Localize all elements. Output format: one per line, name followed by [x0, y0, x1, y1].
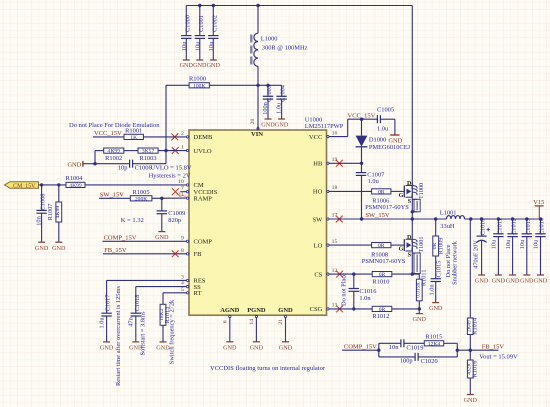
resistor R1016 432R: [464, 350, 479, 404]
svg-text:VCC_15V: VCC_15V: [94, 130, 122, 137]
capacitor C1008 10n: [35, 185, 49, 252]
capacitor C1012 10u: [505, 218, 520, 284]
wire comp upper branch: [379, 343, 401, 350]
net label VCC_15V (DEMB): [94, 130, 122, 137]
svg-text:C1001: C1001: [198, 15, 205, 32]
svg-text:R1004: R1004: [65, 175, 83, 182]
resistor R1006 0R: [372, 189, 391, 205]
error squiggle VCCDIS: [177, 195, 187, 197]
wire R1003 to UVLO pin: [158, 150, 186, 152]
pin 8 FB: [181, 248, 202, 258]
svg-text:10u: 10u: [505, 239, 512, 249]
svg-text:10n: 10n: [36, 215, 43, 225]
resistor R1014 2K49: [467, 219, 479, 350]
capacitor C1007 1.0u: [356, 163, 385, 219]
svg-text:1.0u: 1.0u: [377, 126, 389, 133]
svg-text:L1001: L1001: [440, 209, 457, 216]
svg-text:AGND: AGND: [220, 307, 239, 314]
svg-text:GND: GND: [275, 121, 289, 128]
comment restart time: [115, 286, 122, 386]
svg-text:10n: 10n: [389, 344, 399, 351]
wire R1002 to R1003: [124, 150, 138, 152]
node junction C1013 tap: [525, 217, 528, 220]
svg-text:GND: GND: [429, 305, 443, 312]
svg-text:S: S: [408, 198, 412, 205]
svg-text:R1005: R1005: [132, 189, 149, 196]
net label COMP_15V (right): [344, 344, 377, 351]
comment Vout: [479, 354, 518, 361]
svg-text:VCCDIS floating turns on inter: VCCDIS floating turns on internal regula…: [210, 365, 326, 372]
node junction T1001 source join: [411, 272, 414, 275]
svg-text:GND: GND: [492, 278, 506, 285]
svg-text:100p: 100p: [400, 358, 413, 365]
resistor R1000 100K: [189, 76, 209, 90]
wire COMP row: [342, 349, 379, 351]
svg-text:GND: GND: [155, 234, 169, 241]
comment UVLO value: [151, 165, 192, 172]
svg-text:PGND: PGND: [247, 307, 266, 314]
comment Do not Place For Diode Emulation: [69, 122, 160, 129]
capacitor C1003 100n: [261, 85, 275, 128]
transistor Q1 T1000 PSMN017-60YS: [399, 180, 425, 205]
svg-text:10p: 10p: [118, 164, 128, 171]
comment VCCDIS floating: [210, 365, 326, 372]
wire CSG pin to R1012: [329, 308, 372, 310]
svg-text:Do not Place: Do not Place: [341, 273, 348, 306]
svg-text:300R @ 100MHz: 300R @ 100MHz: [262, 44, 308, 51]
wire FB row: [457, 349, 498, 351]
wire VCC_15V to R1001: [93, 136, 124, 138]
wire GND to divider: [83, 163, 95, 165]
svg-text:UVLO = 15.8V: UVLO = 15.8V: [151, 165, 192, 172]
svg-text:DEMB: DEMB: [194, 134, 213, 141]
svg-text:1.0n: 1.0n: [428, 284, 435, 296]
pin 1 UVLO: [181, 145, 212, 155]
svg-text:VIN: VIN: [251, 131, 263, 138]
resistor R1009 0R: [432, 219, 445, 279]
svg-text:R1002: R1002: [105, 155, 122, 162]
svg-text:LO: LO: [314, 242, 323, 249]
pin 2 DEMB: [181, 131, 213, 141]
svg-text:SW_15V: SW_15V: [100, 192, 125, 199]
svg-text:10u: 10u: [491, 239, 498, 249]
svg-text:0R: 0R: [379, 307, 386, 313]
resistor R1015 12K4: [424, 334, 443, 348]
svg-text:R1000: R1000: [189, 76, 206, 83]
svg-text:GND: GND: [261, 121, 275, 128]
resistor R1007 4K99: [47, 185, 66, 252]
svg-text:GND: GND: [67, 161, 81, 168]
svg-text:7: 7: [181, 186, 184, 192]
capacitor C1005 1.0u: [377, 107, 395, 135]
capacitor C1010 470uF 20V: [473, 219, 490, 285]
capacitor C1020 100p: [400, 353, 438, 365]
wire T1001 drain: [411, 219, 413, 239]
pin 15 LO: [314, 239, 338, 250]
capacitor C1014 10u: [533, 217, 548, 284]
pin 16 VCC: [309, 130, 338, 141]
svg-text:C1010: C1010: [480, 219, 487, 236]
svg-text:RT: RT: [194, 290, 202, 297]
no-ERC cross UVLO: [172, 147, 179, 154]
pin 12 CS: [314, 268, 337, 279]
pin stub VCCDIS: [180, 191, 186, 193]
net label SW_15V (rail): [365, 212, 390, 219]
node junction R1000 drop: [164, 149, 167, 152]
node junction C1012 tap: [511, 217, 514, 220]
svg-text:COMP: COMP: [194, 239, 213, 246]
svg-text:PSMN017-60YS: PSMN017-60YS: [365, 204, 409, 211]
node junction D1000 tap: [360, 118, 363, 121]
net label FB_15V (left): [104, 247, 127, 254]
resistor R1001 1K: [124, 128, 143, 141]
svg-text:C1018: C1018: [134, 295, 141, 312]
svg-text:C1005: C1005: [377, 107, 394, 114]
svg-text:GND: GND: [35, 245, 49, 252]
svg-text:GND: GND: [180, 62, 194, 69]
svg-text:C1013: C1013: [525, 218, 532, 235]
wire R1005 to RAMP pin: [152, 197, 187, 199]
capacitor C1013 10u: [519, 218, 534, 284]
svg-text:0R: 0R: [378, 243, 385, 249]
resistor R1008 0R: [371, 243, 391, 259]
svg-text:1.0n: 1.0n: [359, 295, 371, 302]
capacitor C1006 10p: [95, 160, 166, 172]
svg-text:Switch frequency = 272k: Switch frequency = 272k: [169, 299, 176, 364]
svg-text:100n: 100n: [262, 101, 269, 114]
capacitor C1001 10u: [193, 6, 207, 69]
svg-text:S: S: [408, 252, 412, 259]
net label COMP_15V (left): [104, 235, 137, 242]
svg-text:GND: GND: [520, 278, 534, 285]
svg-text:Do not Place For Diode Emulati: Do not Place For Diode Emulation: [69, 122, 160, 129]
wire C1020 to FB: [418, 350, 457, 357]
node junction comp left: [377, 349, 380, 352]
svg-text:10u: 10u: [195, 41, 202, 51]
wire SW rail: [329, 218, 541, 220]
svg-text:3K57: 3K57: [142, 149, 155, 155]
svg-text:20: 20: [250, 119, 256, 125]
no-ERC cross CS: [336, 271, 343, 278]
svg-text:16: 16: [332, 130, 338, 136]
pin 3 RES: [181, 274, 206, 284]
svg-text:8: 8: [181, 248, 184, 254]
svg-text:820p: 820p: [168, 217, 181, 224]
no-ERC cross FB: [172, 250, 179, 257]
svg-text:G: G: [399, 192, 404, 199]
svg-text:C1015: C1015: [436, 261, 443, 278]
node junction C1008 tap: [40, 183, 43, 186]
svg-text:1K: 1K: [130, 135, 137, 141]
svg-text:10: 10: [178, 179, 184, 185]
svg-text:K = 1.32: K = 1.32: [121, 217, 144, 224]
svg-text:Restart time after overcurrent: Restart time after overcurrent is 125ms: [115, 286, 122, 386]
capacitor C1018 47n: [128, 287, 187, 352]
svg-text:HO: HO: [313, 189, 323, 196]
body diode T1000: [412, 199, 420, 212]
node junction C1011 tap: [497, 217, 500, 220]
no-ERC cross DEMB: [171, 134, 178, 141]
wire up to R1002: [95, 151, 104, 164]
svg-text:200K: 200K: [135, 196, 147, 202]
node junction comp join: [456, 349, 459, 352]
wire R1001 to DEMB: [143, 136, 186, 138]
pin 11 RAMP: [178, 192, 212, 202]
wire T1000 drain: [411, 183, 413, 186]
svg-text:PMEG6010CEJ: PMEG6010CEJ: [369, 144, 411, 151]
power port V15: [533, 199, 544, 219]
pin 21 GND: [278, 307, 293, 352]
svg-text:GND: GND: [413, 316, 427, 323]
svg-text:470uF 20V: 470uF 20V: [473, 240, 480, 269]
svg-text:PSMN017-60YS: PSMN017-60YS: [362, 258, 406, 265]
node junction C1009 tap: [160, 197, 163, 200]
wire T1000 source: [411, 197, 413, 219]
svg-text:18: 18: [332, 185, 338, 191]
power port CM_15V: [5, 182, 39, 190]
capacitor C1019 10n: [389, 339, 424, 351]
svg-text:1.0u: 1.0u: [99, 317, 106, 329]
node junction HB: [360, 162, 363, 165]
comment softstart: [140, 311, 147, 355]
svg-text:V15: V15: [533, 199, 544, 206]
node junction L1000 tap: [256, 4, 259, 7]
pin 5 RT: [181, 287, 201, 297]
comment hysteresis: [149, 173, 191, 180]
node junction C1016 top: [352, 272, 355, 275]
resistor R1002 4K99: [104, 148, 124, 162]
svg-text:R1007: R1007: [47, 204, 54, 221]
pin 20 VIN: [250, 119, 263, 138]
wire COMP_15V to pin: [103, 240, 187, 242]
wire R1008 to gate: [391, 244, 404, 246]
svg-text:Hysteresis = 2V: Hysteresis = 2V: [149, 173, 191, 180]
wire CS pin to R1010: [329, 273, 372, 275]
svg-text:R1001: R1001: [125, 128, 142, 135]
net label FB_15V (right): [482, 343, 505, 350]
body diode T1001: [412, 253, 420, 274]
resistor R1010 0R: [372, 272, 392, 286]
inductor L1000 300R @ 100MHz: [251, 6, 307, 86]
svg-text:3: 3: [181, 274, 184, 280]
svg-text:R1003: R1003: [139, 155, 156, 162]
comment T1001 part number: [362, 258, 406, 265]
wire R1004 to CM pin: [85, 184, 186, 186]
svg-text:CM_15V: CM_15V: [13, 183, 36, 189]
pin 6 AGND: [220, 307, 239, 352]
wire comp lower branch: [379, 350, 415, 357]
svg-text:R1014: R1014: [471, 317, 478, 335]
svg-text:100K: 100K: [193, 83, 205, 89]
power port GND (UVLO divider): [67, 161, 82, 169]
node junction C1001 tap: [198, 4, 201, 7]
svg-text:47n: 47n: [128, 316, 135, 326]
node junction C1010 tap: [480, 217, 483, 220]
svg-text:R1012: R1012: [372, 313, 389, 320]
svg-text:GND: GND: [506, 278, 520, 285]
svg-text:GND: GND: [534, 278, 548, 285]
pin 4 SS: [181, 281, 201, 291]
svg-text:1.0u: 1.0u: [276, 102, 283, 114]
svg-text:FB_15V: FB_15V: [104, 247, 127, 254]
op-amp U1000 LM25117PWP body: [189, 116, 344, 315]
svg-text:SW_15V: SW_15V: [365, 212, 390, 219]
node junction R1014 tap: [469, 217, 472, 220]
svg-text:33uH: 33uH: [440, 223, 455, 230]
capacitor C1004 1.0u: [275, 84, 289, 128]
svg-text:FB: FB: [194, 251, 203, 258]
svg-text:RAMP: RAMP: [194, 195, 213, 202]
wire LO pin to R1008: [329, 244, 372, 246]
comment Do not Place (snubber): [445, 244, 452, 277]
svg-text:C1002: C1002: [211, 15, 218, 32]
transistor Q2 T1001 PSMN017-60YS: [399, 234, 425, 259]
wire SW_15V to R1005: [99, 197, 130, 199]
no-ERC cross HB: [336, 160, 343, 167]
capacitor C1015 1.0n: [428, 261, 443, 313]
pin 9 COMP: [181, 235, 212, 245]
svg-text:L1000: L1000: [261, 36, 278, 43]
net label VCC_15V (right): [348, 112, 376, 119]
pin 14 PGND: [247, 307, 266, 352]
svg-text:R1015: R1015: [425, 334, 442, 341]
svg-text:10u: 10u: [208, 41, 215, 51]
svg-text:GND: GND: [464, 397, 478, 404]
svg-text:LM25117PWP: LM25117PWP: [305, 123, 344, 130]
svg-text:C1000: C1000: [184, 15, 191, 32]
svg-text:4K99: 4K99: [55, 206, 61, 219]
svg-text:C1012: C1012: [511, 218, 518, 235]
comment switch frequency: [169, 299, 176, 364]
node junction C1014 tap: [539, 217, 542, 220]
svg-text:C1006: C1006: [135, 165, 152, 172]
svg-text:10u: 10u: [181, 41, 188, 51]
svg-text:Snubber network: Snubber network: [451, 240, 458, 285]
svg-text:CSG: CSG: [310, 306, 323, 313]
pin 7 VCCDIS: [181, 186, 218, 196]
wire HO pin to R1006: [329, 190, 372, 192]
svg-text:Vout = 15.09V: Vout = 15.09V: [479, 354, 518, 361]
capacitor C1011 10u: [491, 218, 506, 284]
svg-text:C1020: C1020: [421, 358, 438, 365]
svg-text:21: 21: [278, 319, 284, 325]
svg-text:GND: GND: [279, 344, 293, 351]
pin 18 HO: [313, 185, 338, 196]
svg-text:5: 5: [181, 287, 184, 293]
svg-text:10u: 10u: [533, 239, 540, 249]
comment Do not Place (C1016): [341, 273, 348, 306]
capacitor C1017 1.0u: [99, 280, 187, 351]
svg-text:GND: GND: [100, 345, 114, 352]
wire VIN top rail: [186, 6, 412, 186]
node junction T1000 body: [411, 210, 414, 213]
svg-text:GND: GND: [207, 62, 221, 69]
capacitor C1016 1.0n: [349, 274, 377, 310]
comment Snubber network: [451, 240, 458, 285]
svg-text:14: 14: [249, 319, 255, 325]
node junction C1003 tap: [266, 84, 269, 87]
svg-text:4K99: 4K99: [108, 149, 121, 155]
power port GND (C1005): [388, 135, 402, 144]
wire R1012 to sense gnd: [392, 308, 420, 310]
pin 13 CSG: [310, 303, 338, 314]
wire VCC pin to rail: [329, 119, 378, 136]
capacitor C1002 10u: [207, 6, 221, 69]
pin 17 SW: [313, 213, 338, 224]
svg-text:R1016: R1016: [471, 361, 478, 378]
svg-text:Softstart = 3.8ms: Softstart = 3.8ms: [140, 311, 147, 355]
svg-text:GND: GND: [278, 307, 293, 314]
svg-text:C1017: C1017: [105, 295, 112, 312]
power port GND (CSG): [413, 309, 427, 323]
svg-text:C1014: C1014: [539, 217, 546, 235]
node junction UVLO gnd: [93, 162, 96, 165]
svg-text:G: G: [399, 246, 404, 253]
svg-text:T1000: T1000: [418, 183, 425, 199]
svg-text:GND: GND: [223, 344, 237, 351]
wire T1001 source: [411, 251, 413, 274]
node junction L1000 bottom: [256, 84, 259, 87]
svg-text:10u: 10u: [519, 239, 526, 249]
wire R1015 to FB: [444, 343, 458, 350]
svg-text:GND: GND: [193, 62, 207, 69]
comment T1000 part number: [365, 204, 409, 211]
svg-text:HB: HB: [313, 161, 323, 168]
svg-text:CS: CS: [314, 271, 322, 278]
svg-text:VCC: VCC: [309, 134, 322, 141]
svg-text:1.0u: 1.0u: [368, 178, 380, 185]
net label SW_15V (ramp): [100, 192, 125, 199]
svg-text:C1008: C1008: [40, 194, 47, 211]
svg-text:0R: 0R: [378, 189, 385, 195]
svg-text:FB_15V: FB_15V: [482, 343, 505, 350]
node junction FB: [469, 349, 472, 352]
svg-text:C1019: C1019: [406, 344, 423, 351]
svg-text:4K99: 4K99: [69, 183, 82, 189]
resistor R1011 0.015R: [416, 270, 428, 309]
svg-text:UVLO: UVLO: [194, 148, 212, 155]
wire R1010 to R1011: [392, 273, 420, 275]
no-ERC cross CSG: [336, 306, 343, 313]
svg-text:GND: GND: [475, 278, 489, 285]
svg-text:GND: GND: [250, 344, 264, 351]
no-ERC cross VCCDIS: [172, 188, 179, 195]
no-ERC cross SW: [336, 216, 343, 223]
wire VIN feed row: [166, 85, 282, 163]
svg-text:2: 2: [181, 131, 184, 137]
node junction T1000 source: [411, 217, 414, 220]
wire VIN pin: [257, 85, 259, 130]
diode D1000 PMEG6010CEJ: [356, 119, 411, 163]
pin 19 HB: [313, 157, 337, 168]
node junction CSG gnd: [418, 307, 421, 310]
node junction C1007 bottom: [360, 217, 363, 220]
node junction R1007 tap: [57, 183, 60, 186]
svg-text:0R: 0R: [379, 272, 386, 278]
pin 10 CM: [178, 179, 204, 189]
svg-text:R1009: R1009: [438, 238, 445, 255]
wire CM_15V to R1004: [39, 184, 67, 186]
wire R1006 to gate: [391, 190, 404, 192]
svg-text:C1011: C1011: [496, 218, 503, 235]
svg-text:T1001: T1001: [418, 237, 425, 253]
svg-text:D: D: [407, 180, 412, 187]
resistor R1005 200K: [130, 189, 152, 203]
wire FB_15V to pin: [103, 253, 186, 255]
node junction snubber tap: [434, 217, 437, 220]
svg-text:6: 6: [222, 320, 228, 323]
svg-text:C1003: C1003: [266, 85, 273, 102]
